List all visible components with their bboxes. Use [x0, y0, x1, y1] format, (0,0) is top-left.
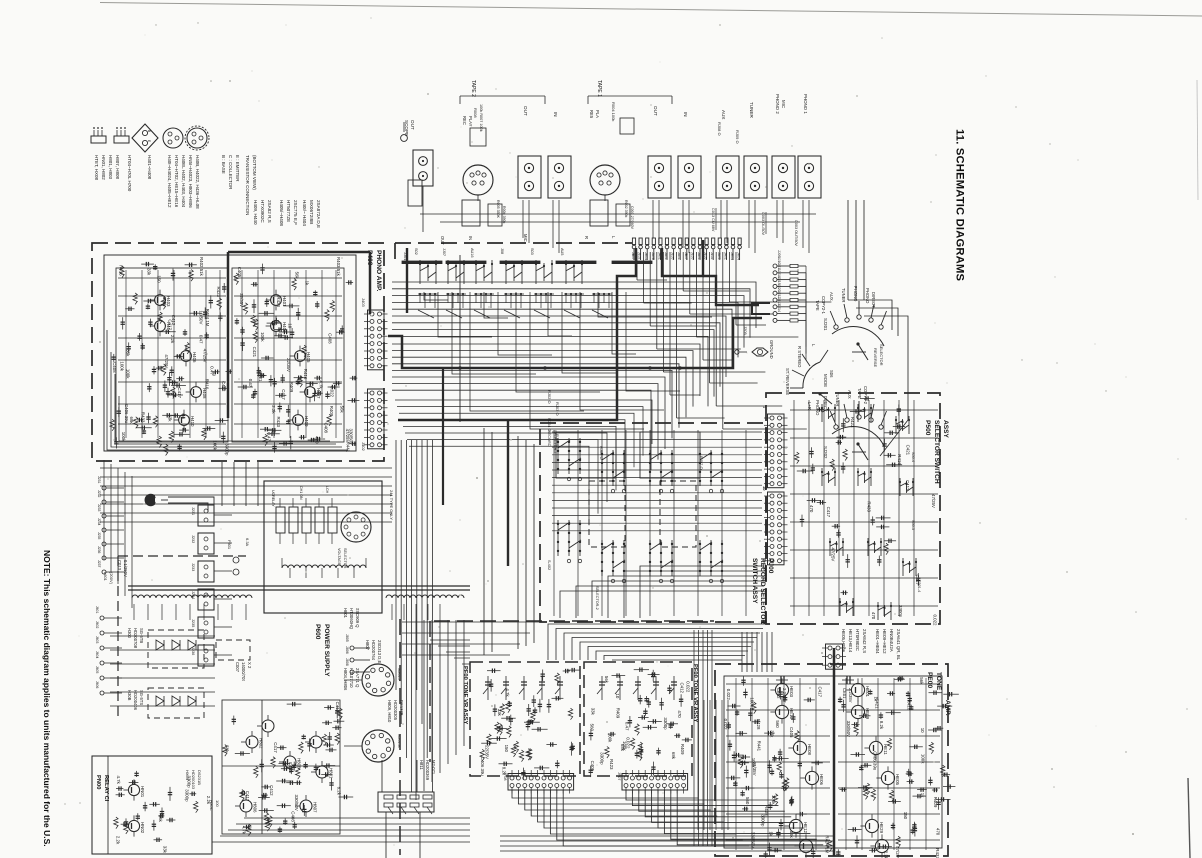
svg-text:HE09~HE12: HE09~HE12 — [882, 629, 887, 654]
phono1 jacks — [798, 156, 821, 198]
svg-text:JR04: JR04 — [730, 252, 734, 260]
svg-text:J236: J236 — [97, 546, 101, 553]
svg-text:56k: 56k — [604, 676, 609, 684]
svg-text:L+R: L+R — [807, 402, 812, 410]
tape1 din connector J005 — [590, 165, 620, 195]
svg-text:AUX: AUX — [829, 292, 834, 301]
svg-text:H804, H806: H804, H806 — [343, 668, 348, 691]
tone vr texture 1 — [526, 749, 530, 761]
thick bus D — [406, 248, 408, 313]
svg-text:560: 560 — [590, 724, 595, 732]
svg-text:33k: 33k — [591, 708, 596, 716]
svg-text:R428: R428 — [906, 700, 911, 711]
din1 lower boxes — [590, 200, 608, 226]
svg-text:TUNER: TUNER — [749, 102, 754, 119]
svg-text:H300: H300 — [127, 628, 132, 639]
svg-text:56k: 56k — [339, 406, 344, 414]
svg-text:C412: C412 — [171, 315, 176, 326]
svg-text:R002 390k: R002 390k — [624, 200, 628, 218]
svg-text:AUX: AUX — [721, 110, 726, 119]
svg-text:J605: J605 — [95, 666, 99, 673]
page edge scan artifact right — [1188, 778, 1190, 858]
svg-text:8.2k: 8.2k — [337, 787, 342, 796]
svg-text:R403 51k: R403 51k — [336, 257, 341, 277]
svg-text:100k R007 100k: 100k R007 100k — [479, 104, 483, 132]
svg-text:J235: J235 — [97, 532, 101, 539]
power-tone interface horizontals — [402, 621, 540, 623]
svg-text:SELECTOR SWITCH: SELECTOR SWITCH — [933, 420, 940, 484]
svg-text:JA01: JA01 — [697, 252, 701, 260]
svg-text:H409, H440: H409, H440 — [253, 200, 258, 225]
svg-text:2SD313 D,E: 2SD313 D,E — [377, 640, 382, 663]
PE00 center rail — [833, 648, 836, 856]
svg-text:HE29: HE29 — [879, 822, 884, 834]
svg-text:2SA872A D,E: 2SA872A D,E — [316, 200, 321, 228]
svg-text:C417: C417 — [245, 791, 250, 802]
svg-text:E : EMITTER: E : EMITTER — [235, 155, 240, 182]
svg-text:R423: R423 — [850, 417, 855, 428]
tape2 in jacks — [548, 156, 571, 198]
svg-text:R424 1M: R424 1M — [205, 309, 210, 327]
svg-text:C013: C013 — [117, 560, 122, 571]
P400 left channel transistors — [155, 295, 166, 306]
tape2 bracket — [460, 95, 545, 97]
svg-text:R433: R433 — [276, 417, 281, 428]
svg-text:H80B: H80B — [297, 758, 302, 769]
svg-text:S501-4: S501-4 — [917, 580, 921, 592]
P300 connector J301 10pin — [768, 492, 785, 565]
svg-text:241 TYPE ONLY: 241 TYPE ONLY — [389, 490, 394, 520]
P300 wiring verticals — [553, 430, 555, 616]
svg-text:JA01: JA01 — [664, 252, 668, 260]
svg-text:GROUND: GROUND — [769, 340, 774, 359]
AC power plug — [145, 494, 155, 506]
svg-text:HD200406: HD200406 — [133, 690, 138, 711]
svg-text:4.7k: 4.7k — [116, 776, 121, 785]
svg-text:(BOTTOM VIEW): (BOTTOM VIEW) — [252, 155, 257, 190]
svg-text:PHONO 2: PHONO 2 — [775, 94, 780, 114]
diode block 2 — [148, 688, 204, 718]
svg-text:H408: H408 — [202, 388, 207, 399]
big capacitors C007 — [216, 640, 250, 660]
svg-text:33k: 33k — [789, 831, 794, 839]
resistor block R006-R009 — [470, 128, 486, 146]
svg-text:HE08: HE08 — [807, 744, 812, 756]
svg-text:R005 350K: R005 350K — [496, 200, 500, 219]
PE00 inner frame — [724, 676, 942, 848]
svg-text:2SC909 Q: 2SC909 Q — [355, 608, 360, 628]
thin long drop — [459, 255, 461, 422]
svg-text:2.2k: 2.2k — [883, 851, 888, 858]
svg-text:HD200103: HD200103 — [191, 770, 196, 790]
svg-text:HE12: HE12 — [803, 822, 808, 834]
svg-text:2SA82 R,S: 2SA82 R,S — [267, 200, 272, 223]
svg-text:JJ07: JJ07 — [442, 248, 446, 256]
record selector wafers row1 — [557, 438, 559, 474]
svg-text:H409: H409 — [304, 416, 309, 427]
svg-text:IN: IN — [683, 112, 688, 117]
svg-text:JR04: JR04 — [737, 252, 741, 260]
P300 exit stepped wires — [548, 624, 766, 660]
svg-text:COPY2-1: COPY2-1 — [821, 296, 826, 315]
din lower boxes — [462, 200, 480, 226]
svg-text:J233: J233 — [191, 563, 195, 571]
svg-text:10: 10 — [920, 728, 925, 733]
svg-text:R423: R423 — [276, 296, 281, 307]
svg-text:B : BASE: B : BASE — [221, 155, 226, 174]
transformer core — [128, 585, 470, 587]
wires between P300 and tone area — [697, 700, 699, 830]
harness nested steps band3 lower — [395, 400, 652, 444]
svg-text:C : COLLECTOR: C : COLLECTOR — [228, 155, 233, 190]
speaker terminal strip — [378, 792, 434, 812]
svg-text:J235: J235 — [191, 619, 195, 627]
thick bus F drop — [442, 368, 444, 505]
svg-text:470: 470 — [677, 710, 682, 718]
svg-text:4.7k: 4.7k — [319, 380, 324, 389]
sj202 wiper — [856, 442, 859, 445]
svg-text:H801: H801 — [329, 768, 334, 779]
svg-text:HE01~HE04: HE01~HE04 — [875, 629, 880, 654]
svg-text:3300p: 3300p — [898, 605, 903, 618]
scope out jack J006 — [413, 150, 433, 186]
svg-text:HX0C: HX0C — [209, 800, 214, 811]
svg-text:C408: C408 — [327, 333, 332, 344]
tuner jacks — [744, 156, 767, 198]
svg-text:MIC: MIC — [523, 234, 528, 242]
svg-text:47/25V: 47/25V — [203, 349, 208, 363]
svg-text:J402: J402 — [361, 442, 366, 451]
svg-text:J606: J606 — [95, 681, 99, 688]
svg-text:(200V): (200V) — [109, 572, 114, 585]
svg-text:JF08: JF08 — [503, 772, 507, 780]
svg-text:J231: J231 — [191, 507, 195, 515]
svg-text:100k: 100k — [120, 361, 125, 371]
svg-text:JR04: JR04 — [644, 252, 648, 260]
svg-text:10: 10 — [287, 323, 292, 328]
switch row lower contacts — [418, 293, 438, 295]
svg-text:JF07: JF07 — [617, 772, 621, 780]
PE00 texture left — [796, 813, 807, 815]
svg-text:R428: R428 — [756, 719, 761, 730]
svg-text:100k: 100k — [121, 432, 126, 442]
svg-text:3300p: 3300p — [225, 443, 230, 456]
svg-text:JB07: JB07 — [631, 252, 635, 260]
svg-text:AU5: AU5 — [560, 248, 564, 255]
transistor connection legend icons — [91, 136, 106, 143]
svg-text:C417: C417 — [817, 687, 822, 698]
svg-text:R004 100k: R004 100k — [611, 102, 616, 121]
svg-text:J232: J232 — [97, 490, 101, 497]
svg-text:HD200708: HD200708 — [133, 628, 138, 649]
svg-text:HN0B4U2A: HN0B4U2A — [889, 629, 894, 652]
svg-text:TAPE 2: TAPE 2 — [470, 80, 476, 97]
svg-text:HT04~HT02, HE15~HE16: HT04~HT02, HE15~HE16 — [174, 155, 179, 208]
svg-text:R423: R423 — [216, 287, 221, 298]
svg-text:0.47: 0.47 — [248, 379, 253, 388]
svg-text:J601: J601 — [95, 606, 99, 613]
P300 solid sub-box — [556, 432, 616, 478]
svg-text:HE06: HE06 — [819, 774, 824, 786]
circular connector SG-01B — [362, 730, 394, 762]
svg-text:33k: 33k — [125, 349, 130, 357]
svg-text:ASSY: ASSY — [942, 420, 949, 439]
tone vr pots 1 — [487, 676, 489, 700]
svg-text:150: 150 — [156, 275, 161, 283]
P500 wiring horizontals — [790, 409, 938, 411]
svg-text:H807: H807 — [365, 640, 370, 651]
svg-text:8.2k: 8.2k — [879, 721, 884, 730]
svg-text:UCRELAY: UCRELAY — [271, 490, 275, 507]
aux jacks — [716, 156, 739, 198]
risers join tone vr — [430, 639, 470, 641]
scan specks — [516, 177, 517, 178]
svg-text:H40I~H4024, H405~HE12: H40I~H4024, H405~HE12 — [167, 155, 172, 208]
svg-text:3300p: 3300p — [600, 752, 605, 765]
svg-text:H807: H807 — [313, 802, 318, 813]
harness verticals from bullets — [636, 252, 638, 280]
svg-text:0.47: 0.47 — [209, 366, 214, 375]
PE00 rails — [726, 683, 830, 685]
thick bus A phono out — [388, 318, 762, 368]
svg-text:HX04: HX04 — [185, 770, 190, 781]
drop bundle to tone vr — [483, 428, 485, 655]
svg-text:H801, H803: H801, H803 — [108, 155, 113, 180]
svg-text:470: 470 — [315, 436, 320, 444]
fuse + resistor near plug — [233, 557, 239, 563]
svg-text:0.47: 0.47 — [267, 432, 272, 441]
svg-text:HE05,HE06: HE05,HE06 — [841, 629, 846, 653]
P400 thick rail — [227, 252, 230, 418]
svg-text:47/25V: 47/25V — [164, 354, 169, 368]
svg-text:C412: C412 — [269, 785, 274, 796]
bullet connector row JA01-JA17 — [632, 238, 635, 245]
svg-text:330/50V: 330/50V — [846, 721, 851, 737]
svg-text:S06: S06 — [829, 370, 834, 378]
wires to circular connectors — [344, 679, 362, 681]
svg-text:470: 470 — [871, 612, 876, 620]
P300 dashed sub-box 1 — [589, 481, 625, 547]
PE00 transistors — [775, 683, 788, 696]
svg-text:3300p: 3300p — [185, 789, 190, 802]
speaker switch column J231-J236 — [198, 505, 214, 526]
mode switch arc — [803, 362, 820, 388]
svg-text:HE05: HE05 — [895, 774, 900, 786]
svg-text:LCH: LCH — [325, 486, 329, 494]
svg-text:560: 560 — [745, 797, 750, 805]
svg-text:HE03: HE03 — [789, 686, 794, 698]
svg-text:HN5I~H4023, H803~H806: HN5I~H4023, H803~H806 — [188, 155, 193, 208]
svg-text:100k: 100k — [126, 369, 131, 379]
diode block H300 dashed — [148, 630, 204, 668]
svg-text:S03: S03 — [530, 248, 534, 255]
left rail bullets J605 — [100, 616, 104, 620]
svg-text:47/25V: 47/25V — [895, 846, 900, 858]
thick bus C bullet loop — [662, 240, 703, 276]
svg-text:JL02: JL02 — [638, 252, 642, 259]
P500 connector J501 10pin — [768, 414, 785, 488]
svg-text:CH1 ON: CH1 ON — [299, 486, 303, 500]
svg-text:HE11: HE11 — [883, 744, 888, 755]
wires selector to strip — [381, 760, 383, 792]
harness nested steps band2 — [392, 344, 700, 396]
power supply dashed corner — [117, 556, 119, 718]
svg-text:0.022: 0.022 — [686, 681, 691, 693]
PF00 tone vr assy box 1 — [470, 662, 580, 776]
svg-text:C003 OL/50V: C003 OL/50V — [761, 212, 765, 235]
svg-text:MIC: MIC — [781, 100, 786, 108]
relay texture — [149, 803, 160, 805]
svg-text:3300p: 3300p — [761, 814, 766, 827]
svg-text:J233: J233 — [97, 504, 101, 511]
svg-text:J602: J602 — [95, 621, 99, 628]
PN00 relay box — [92, 756, 212, 854]
P400 nested feedback loops — [107, 330, 348, 450]
svg-text:RJ03 O: RJ03 O — [555, 402, 560, 416]
svg-text:TONE: TONE — [935, 672, 942, 691]
rotary selector SJ201 — [832, 327, 884, 346]
capacitor CE02 — [776, 679, 788, 681]
svg-text:HT3060HQ: HT3060HQ — [349, 608, 354, 630]
svg-text:2.2k: 2.2k — [115, 836, 120, 845]
svg-text:0.022: 0.022 — [726, 689, 731, 701]
svg-text:H801: H801 — [343, 608, 348, 619]
tone amp entry wires — [741, 632, 743, 672]
phono ground terminal — [752, 348, 768, 356]
svg-text:R STEREO: R STEREO — [797, 346, 802, 368]
svg-text:R441: R441 — [345, 442, 350, 453]
svg-text:22/35V: 22/35V — [286, 358, 291, 372]
svg-text:VOLTAGE: VOLTAGE — [337, 548, 341, 566]
svg-text:C408: C408 — [323, 423, 328, 434]
svg-text:JA08: JA08 — [651, 252, 655, 260]
svg-text:C421: C421 — [874, 698, 879, 709]
svg-text:H401~H408: H401~H408 — [147, 155, 152, 180]
tape1 out jacks — [648, 156, 671, 198]
tone vr connector JF07 — [622, 774, 688, 791]
svg-text:COPY1-2: COPY1-2 — [863, 386, 868, 405]
svg-text:S50-5: S50-5 — [911, 520, 915, 530]
svg-text:150: 150 — [504, 745, 509, 753]
tape1 in jacks — [678, 156, 701, 198]
svg-text:H406: H406 — [192, 352, 197, 363]
cross bundle left — [100, 467, 392, 469]
wire phono to sj202 — [864, 316, 908, 456]
svg-text:H809, H810: H809, H810 — [387, 700, 392, 723]
tone area dashed border left — [399, 619, 401, 855]
staircase wires from JF07 — [626, 790, 772, 800]
svg-text:NOTE: This schematic diagram a: NOTE: This schematic diagram applies to … — [42, 550, 52, 847]
svg-text:J806: J806 — [345, 646, 349, 654]
svg-text:33k: 33k — [147, 268, 152, 276]
P300 record selector dashed box — [540, 423, 766, 622]
svg-text:POWER SUPPLY: POWER SUPPLY — [323, 624, 330, 677]
svg-text:0.47: 0.47 — [198, 335, 203, 344]
svg-text:J232: J232 — [191, 535, 195, 543]
svg-text:0.022: 0.022 — [723, 719, 728, 731]
svg-text:H807, H808: H807, H808 — [115, 155, 120, 180]
voltage selector rotary — [341, 512, 371, 542]
svg-text:0.022: 0.022 — [626, 737, 631, 749]
thick bus E drop — [507, 420, 509, 566]
svg-text:0.1/250V: 0.1/250V — [123, 560, 128, 577]
tone vr pots 2 — [601, 676, 603, 700]
svg-text:S-402: S-402 — [547, 560, 551, 570]
svg-text:R433: R433 — [866, 501, 871, 512]
relay contact rects — [276, 507, 285, 533]
circular connector SG-01F — [362, 664, 394, 696]
record selector wafers row2 — [557, 520, 559, 556]
svg-text:100k: 100k — [608, 733, 613, 743]
svg-text:R402 51k: R402 51k — [199, 257, 204, 277]
svg-text:HTX0902C: HTX0902C — [260, 200, 265, 223]
svg-text:J234: J234 — [97, 518, 101, 525]
staircase wires from JF08 — [512, 790, 698, 798]
svg-text:C421: C421 — [252, 347, 257, 358]
svg-text:1k: 1k — [305, 281, 310, 286]
PE00 tone amp dashed box — [715, 664, 948, 856]
svg-text:S02: S02 — [414, 248, 418, 255]
svg-text:PF00 TONE VR ASSY: PF00 TONE VR ASSY — [462, 666, 468, 724]
jack wires down — [522, 200, 524, 238]
svg-text:C408: C408 — [290, 811, 295, 822]
tone area dashed border top — [434, 620, 714, 622]
svg-text:R416: R416 — [204, 379, 209, 390]
tone vr texture 2 — [608, 733, 616, 735]
P400 connector J402 — [368, 389, 385, 449]
svg-text:PLAY: PLAY — [468, 116, 473, 127]
P400 right channel transistors — [271, 295, 282, 306]
svg-text:J237: J237 — [97, 560, 101, 567]
svg-text:J08: J08 — [500, 248, 504, 254]
svg-text:470: 470 — [936, 828, 941, 836]
svg-text:4.7k: 4.7k — [505, 688, 510, 697]
sj201 wiper — [856, 342, 859, 345]
svg-text:ST. REVERSE: ST. REVERSE — [785, 368, 790, 395]
tape2 out jacks — [518, 156, 541, 198]
svg-text:150: 150 — [903, 812, 908, 820]
svg-text:P500: P500 — [924, 420, 931, 436]
svg-text:J603: J603 — [95, 636, 99, 643]
jack ground bus — [420, 213, 816, 215]
regulator circuit transistors — [246, 736, 258, 748]
transformer primary winding — [282, 565, 366, 568]
svg-text:X 2: X 2 — [247, 662, 252, 669]
svg-text:REC: REC — [462, 116, 467, 125]
svg-text:R423: R423 — [609, 759, 614, 770]
svg-text:TUNER: TUNER — [841, 288, 846, 302]
svg-text:22/35V: 22/35V — [239, 293, 244, 307]
relay transistors — [128, 784, 139, 795]
svg-text:JJ14: JJ14 — [777, 304, 781, 312]
capacitor CE01 — [842, 679, 854, 681]
svg-text:JA01: JA01 — [723, 252, 727, 260]
svg-text:2SA842 R,S: 2SA842 R,S — [862, 629, 867, 653]
P400 inner frame — [104, 255, 356, 451]
tape2 din connector J008 — [463, 165, 493, 195]
svg-text:R409: R409 — [680, 744, 685, 755]
svg-text:C007: C007 — [235, 662, 240, 673]
svg-text:R409: R409 — [616, 708, 621, 719]
svg-text:10/50V: 10/50V — [199, 311, 204, 325]
svg-text:AU16: AU16 — [470, 248, 474, 258]
svg-text:F601: F601 — [227, 540, 232, 550]
svg-text:68k: 68k — [620, 744, 625, 752]
thick stub JJ12 — [752, 303, 770, 314]
svg-text:R416: R416 — [897, 454, 902, 465]
svg-text:J808: J808 — [345, 658, 349, 666]
svg-text:C408: C408 — [112, 362, 117, 373]
